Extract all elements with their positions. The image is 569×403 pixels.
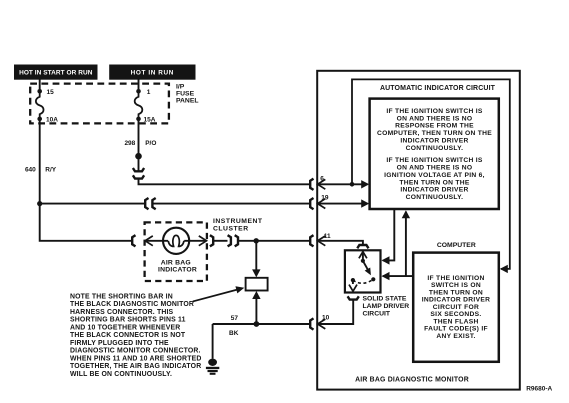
svg-text:HARNESS CONNECTOR. THIS: HARNESS CONNECTOR. THIS <box>70 309 174 316</box>
arrow into shorting bar top <box>252 269 260 277</box>
fuse F1 10A pin 15 <box>36 89 44 121</box>
svg-text:I/P: I/P <box>176 83 185 90</box>
in-line connector on 298 <box>133 168 144 179</box>
svg-text:AIR BAG: AIR BAG <box>161 259 191 266</box>
svg-text:INDICATOR: INDICATOR <box>158 267 197 274</box>
wire 11 to monitor <box>238 240 309 242</box>
air bag indicator lamp <box>163 228 189 254</box>
svg-text:ANY EXIST.: ANY EXIST. <box>436 333 475 340</box>
label COMPUTER <box>437 242 476 249</box>
cluster right exit arrow <box>199 236 207 246</box>
wire 6 inside <box>318 183 368 185</box>
wire from lamp <box>184 240 206 242</box>
arrow into shorting bar bottom <box>252 291 260 299</box>
computer message text <box>422 275 490 340</box>
power feed box HOT IN RUN <box>110 65 195 79</box>
connector half at cluster left <box>132 235 135 246</box>
indicator driver message box <box>370 99 499 209</box>
svg-text:IF THE IGNITION SWITCH IS: IF THE IGNITION SWITCH IS <box>386 157 482 164</box>
note pointer arrowhead <box>235 286 244 293</box>
air bag diagnostic monitor box <box>317 71 520 390</box>
label P/O <box>145 140 156 147</box>
instrument cluster dashed box <box>145 222 207 281</box>
power feed box HOT IN START OR RUN <box>15 65 98 79</box>
automatic indicator circuit outline <box>352 79 510 269</box>
label BK <box>229 330 239 337</box>
I/P fuse panel dashed box <box>30 84 169 124</box>
note pointer line <box>193 289 240 301</box>
svg-text:COMPUTER, THEN TURN ON THE: COMPUTER, THEN TURN ON THE <box>377 130 492 137</box>
wire shorting bar to wire 10 <box>255 299 257 324</box>
wire into lamp <box>145 240 168 242</box>
label 298 <box>124 140 135 147</box>
label pin 10 <box>322 314 330 321</box>
svg-text:FUSE: FUSE <box>176 90 195 97</box>
svg-text:640: 640 <box>25 167 36 174</box>
wire to connector <box>138 159 140 171</box>
junction dot wire 6 <box>350 182 355 187</box>
label pin 6 <box>320 175 324 182</box>
junction dot wire 10 <box>254 321 260 327</box>
label pin 19 <box>321 195 329 202</box>
label 10A <box>46 116 58 123</box>
svg-text:11: 11 <box>324 233 331 240</box>
svg-text:THEN TURN ON THE: THEN TURN ON THE <box>399 179 469 186</box>
indicator driver message text <box>377 108 492 201</box>
arrow wire 6 into indicator box <box>361 180 369 188</box>
svg-text:IF THE IGNITION SWITCH IS: IF THE IGNITION SWITCH IS <box>386 108 482 115</box>
lamp driver switch <box>351 252 376 284</box>
label AIR BAG DIAGNOSTIC MONITOR <box>355 377 469 384</box>
svg-text:6: 6 <box>320 175 324 182</box>
lamp driver bottom exit arrow <box>349 285 357 292</box>
svg-text:CONTINUOUSLY.: CONTINUOUSLY. <box>406 194 464 201</box>
connector half pin 11 <box>310 235 313 246</box>
label 1 <box>147 89 151 96</box>
pin 11 entry arrow <box>318 236 326 246</box>
arrow into indicator box bottom <box>402 210 410 218</box>
svg-text:DIAGNOSTIC MONITOR CONNECTOR.: DIAGNOSTIC MONITOR CONNECTOR. <box>70 348 201 355</box>
connector half pin 10 <box>310 318 313 329</box>
wire feed to fuse 1 <box>138 79 140 90</box>
svg-text:57: 57 <box>231 315 239 322</box>
svg-text:15A: 15A <box>144 116 156 123</box>
label 15A <box>144 116 156 123</box>
connector half at lamp driver bottom <box>348 296 359 299</box>
wire 10 BK <box>213 323 310 325</box>
wire 640 R/Y <box>40 119 132 241</box>
lamp driver top entry arrow <box>359 252 367 259</box>
connector half pin 6 <box>310 179 313 190</box>
svg-text:10A: 10A <box>46 116 58 123</box>
ground G <box>206 359 219 375</box>
arrow wire 19 into indicator box <box>361 199 369 207</box>
arrow into computer right <box>500 265 508 273</box>
svg-text:INDICATOR DRIVER: INDICATOR DRIVER <box>400 187 468 194</box>
svg-text:INSTRUMENT: INSTRUMENT <box>213 218 263 225</box>
svg-text:CONTINUOUSLY.: CONTINUOUSLY. <box>406 145 464 152</box>
wire indicator driver to lamp driver <box>383 209 395 260</box>
svg-text:FIRMLY PLUGGED INTO THE: FIRMLY PLUGGED INTO THE <box>70 340 169 347</box>
solid state lamp driver box <box>345 250 381 292</box>
wire feed to fuse 15 <box>39 79 41 90</box>
svg-text:WHEN PINS 11 AND 10 ARE SHORTE: WHEN PINS 11 AND 10 ARE SHORTED <box>70 355 202 362</box>
svg-text:RESPONSE FROM THE: RESPONSE FROM THE <box>395 123 474 130</box>
svg-text:THEN TURN ON: THEN TURN ON <box>429 289 483 296</box>
arrow into lamp driver right lower <box>382 272 390 280</box>
connector half at cluster right <box>210 235 213 246</box>
ground riser <box>212 324 214 359</box>
svg-text:CIRCUIT: CIRCUIT <box>363 310 391 317</box>
svg-text:10: 10 <box>322 314 330 321</box>
svg-text:INDICATOR DRIVER: INDICATOR DRIVER <box>400 138 468 145</box>
svg-text:298: 298 <box>124 140 135 147</box>
wire 298 to pin 6 <box>139 179 310 184</box>
svg-text:ON AND THERE IS NO: ON AND THERE IS NO <box>397 165 473 172</box>
svg-text:BK: BK <box>229 330 239 337</box>
svg-text:CLUSTER: CLUSTER <box>213 226 249 233</box>
in-line connector on wire 11 <box>228 235 238 246</box>
junction dot wire 19 <box>37 201 42 206</box>
label AUTOMATIC INDICATOR CIRCUIT <box>380 85 496 92</box>
svg-text:1: 1 <box>147 89 151 96</box>
label R9680-A <box>526 385 552 392</box>
label INSTRUMENT CLUSTER <box>213 218 263 232</box>
wire 11 to lamp driver top <box>318 241 363 245</box>
label 57 <box>231 315 239 322</box>
svg-text:COMPUTER: COMPUTER <box>437 242 476 249</box>
wire computer to indicator input <box>405 212 407 276</box>
pin 6 entry arrow <box>318 179 326 189</box>
svg-text:INDICATOR DRIVER: INDICATOR DRIVER <box>422 297 490 304</box>
svg-text:15: 15 <box>47 89 55 96</box>
splice S dot <box>135 153 142 160</box>
svg-text:SIX SECONDS.: SIX SECONDS. <box>430 311 481 318</box>
connector half pin 19 <box>310 198 313 209</box>
svg-text:SHORTING BAR SHORTS PINS 11: SHORTING BAR SHORTS PINS 11 <box>70 317 186 324</box>
svg-text:ON AND THERE IS NO: ON AND THERE IS NO <box>397 115 473 122</box>
svg-text:R/Y: R/Y <box>45 167 57 174</box>
svg-text:HOT IN START OR RUN: HOT IN START OR RUN <box>19 70 93 77</box>
svg-text:NOTE THE SHORTING BAR IN: NOTE THE SHORTING BAR IN <box>70 293 173 300</box>
shorting bar connector box <box>246 278 268 291</box>
svg-text:THE BLACK CONNECTOR IS NOT: THE BLACK CONNECTOR IS NOT <box>70 332 186 339</box>
pin 10 entry arrow <box>318 319 326 329</box>
svg-text:IF THE IGNITION: IF THE IGNITION <box>427 275 484 282</box>
label I/P FUSE PANEL <box>176 83 199 104</box>
svg-text:AIR BAG DIAGNOSTIC MONITOR: AIR BAG DIAGNOSTIC MONITOR <box>355 377 469 384</box>
connector half at lamp driver top <box>357 245 368 248</box>
wire 19 from splice <box>40 203 145 205</box>
label R/Y <box>45 167 57 174</box>
in-line connector on wire 19 <box>145 198 156 209</box>
wire computer to lamp driver <box>383 275 413 277</box>
svg-text:P/O: P/O <box>145 140 156 147</box>
svg-text:PANEL: PANEL <box>176 97 199 104</box>
svg-text:CIRCUIT FOR: CIRCUIT FOR <box>433 304 479 311</box>
svg-text:HOT IN RUN: HOT IN RUN <box>131 69 174 76</box>
label AIR BAG INDICATOR <box>158 259 197 273</box>
label SOLID STATE LAMP DRIVER CIRCUIT <box>363 296 410 318</box>
svg-text:WILL BE ON CONTINUOUSLY.: WILL BE ON CONTINUOUSLY. <box>70 371 172 378</box>
svg-text:FAULT CODE(S) IF: FAULT CODE(S) IF <box>424 326 488 333</box>
fuse F2 15A pin 1 <box>135 89 143 121</box>
wire 19 to monitor <box>153 203 309 205</box>
wire 19 inside <box>318 203 368 205</box>
svg-text:LAMP DRIVER: LAMP DRIVER <box>363 303 410 310</box>
computer box <box>413 253 499 362</box>
svg-text:AUTOMATIC INDICATOR CIRCUIT: AUTOMATIC INDICATOR CIRCUIT <box>380 85 496 92</box>
svg-text:THEN FLASH: THEN FLASH <box>433 318 478 325</box>
pin 19 entry arrow <box>318 199 326 209</box>
junction dot wire 11 <box>254 238 259 243</box>
cluster left entry arrow <box>145 236 153 246</box>
svg-text:TOGETHER, THE AIR BAG INDICATO: TOGETHER, THE AIR BAG INDICATOR <box>70 363 201 370</box>
note text block <box>70 293 202 377</box>
svg-text:THE BLACK DIAGNOSTIC MONITOR: THE BLACK DIAGNOSTIC MONITOR <box>70 301 194 308</box>
wire lamp driver to pin 10 <box>318 300 353 324</box>
svg-text:19: 19 <box>321 195 329 202</box>
svg-text:R9680-A: R9680-A <box>526 385 552 392</box>
svg-text:SOLID STATE: SOLID STATE <box>363 296 407 303</box>
svg-text:SWITCH IS ON: SWITCH IS ON <box>431 282 481 289</box>
label pin 11 <box>324 233 331 240</box>
svg-text:AND 10 TOGETHER WHENEVER: AND 10 TOGETHER WHENEVER <box>70 324 180 331</box>
wire to shorting bar <box>255 241 257 270</box>
label 640 <box>25 167 36 174</box>
wire 11 segment <box>214 240 228 242</box>
svg-text:IGNITION VOLTAGE AT PIN 6,: IGNITION VOLTAGE AT PIN 6, <box>384 172 485 179</box>
arrow into lamp driver right upper <box>382 256 390 264</box>
wire 298 P/O <box>138 119 140 153</box>
label 15 <box>47 89 55 96</box>
